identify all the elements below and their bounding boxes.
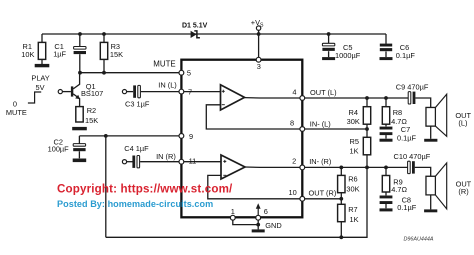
wire C2 line to pin 9 [79, 135, 179, 137]
resistor R7 [338, 204, 345, 221]
mute waveform annotation [28, 92, 41, 103]
wire op-amp U1B - feedback path [208, 175, 300, 198]
junction rail-R3 [102, 32, 106, 36]
pin 10 OUT(R) [300, 196, 305, 201]
wire C5 stem [328, 34, 330, 43]
junction mute-R3 [102, 71, 106, 75]
pin 7 IN(L) [179, 89, 184, 94]
wire C2-line drop to bottom rail [105, 136, 107, 237]
junction OUT(L)-R8 [384, 96, 388, 100]
svg-text:100µF: 100µF [48, 145, 70, 154]
wire R8 top stem [385, 98, 387, 107]
resistor R2 [76, 107, 83, 122]
wire Vs rail to pin 3 [258, 34, 260, 58]
resistor R4 [363, 107, 370, 125]
svg-text:9: 9 [189, 132, 193, 141]
svg-text:C4 1µF: C4 1µF [124, 144, 149, 153]
svg-text:R2: R2 [87, 106, 96, 115]
wire C8 to ground bar [385, 204, 387, 208]
wire R3 bottom stem [103, 59, 105, 72]
wire R8 to C7 [385, 124, 387, 126]
wire op-amp U1A output to pin 4 [244, 97, 300, 99]
wire op-amp U1B output to pin 2 [245, 166, 300, 168]
wire C6 corner stem [385, 34, 387, 44]
wire OUT(R) line pin10 to R6 [305, 198, 342, 200]
resistor R8 [382, 107, 389, 125]
svg-text:Posted By: homemade-circuits.c: Posted By: homemade-circuits.com [57, 199, 213, 209]
wire C1 top stem [79, 34, 81, 47]
capacitor C9 [408, 92, 415, 104]
svg-text:15K: 15K [110, 50, 123, 59]
pin 6 GND [256, 215, 261, 220]
svg-text:IN (R): IN (R) [156, 152, 176, 161]
wire pin6 to gnd node [257, 220, 259, 229]
svg-text:OUT (R): OUT (R) [309, 189, 337, 198]
svg-text:0.1µF: 0.1µF [397, 134, 417, 143]
svg-text:R5: R5 [350, 137, 359, 146]
svg-text:D96AU444A: D96AU444A [404, 236, 434, 242]
resistor R1 [38, 42, 45, 59]
wire R4 top stem [366, 98, 368, 107]
svg-text:10: 10 [289, 188, 297, 197]
wire C5 lower stem [328, 51, 330, 57]
wire R1 top stem [41, 34, 43, 42]
svg-text:R4: R4 [349, 108, 358, 117]
zener diode D1 [191, 31, 200, 38]
wire R7 bottom stem [340, 222, 342, 238]
svg-text:OUT (L): OUT (L) [310, 88, 337, 97]
junction OUT(L)-R4 [365, 96, 369, 100]
junction IN-(R)-R9 [384, 166, 388, 170]
junction rail-C5 [327, 32, 331, 36]
pin 3 Vs [256, 57, 261, 62]
wire R4-R5 link [366, 124, 368, 137]
capacitor C8 [380, 196, 393, 205]
wire C3 input stub [127, 91, 133, 93]
svg-text:30K: 30K [346, 184, 359, 193]
wire C2 bottom stem [78, 151, 80, 158]
junction bottom rail R7 [339, 235, 343, 239]
wire R5 bottom stem [366, 155, 368, 168]
wire C9 to speaker L [415, 98, 430, 108]
capacitor C1 [74, 47, 86, 55]
svg-text:MUTE: MUTE [6, 108, 27, 117]
wire C2 top stem [78, 136, 80, 144]
junction rail-Vs [257, 32, 261, 36]
capacitor C6 [380, 44, 392, 52]
wire +Vs stem [258, 30, 260, 34]
wire C1 bottom stem [79, 54, 81, 72]
ground bar under R2 [72, 127, 87, 130]
svg-text:C9 470µF: C9 470µF [396, 82, 429, 91]
op-amp U1B triangle [221, 155, 245, 179]
ground bar under C2 [73, 159, 87, 163]
+Vs terminal circle [256, 26, 260, 30]
svg-text:1K: 1K [350, 215, 359, 224]
C3 input terminal circle [122, 90, 126, 94]
junction rail-C1 [78, 32, 82, 36]
wire R6-R7 link [340, 193, 342, 205]
svg-text:GND: GND [265, 221, 281, 230]
svg-text:30K: 30K [347, 117, 360, 126]
transistor Q1 [63, 73, 80, 107]
wire R3 top stem [103, 34, 105, 42]
wire bottom rail [106, 167, 367, 237]
resistor R9 [382, 176, 389, 193]
capacitor C3 [133, 85, 140, 97]
wire op-amp U1A - feedback path [206, 105, 300, 129]
junction C2 line drop [104, 134, 108, 138]
svg-text:C10 470µF: C10 470µF [394, 152, 431, 161]
ground bar under C7 [380, 139, 393, 142]
svg-text:15K: 15K [85, 116, 98, 125]
ground bar under C6 [380, 57, 393, 60]
svg-text:BS107: BS107 [81, 89, 103, 98]
junction mute-C1-Q1 [78, 71, 82, 75]
ground bar under R1 [35, 64, 50, 67]
pin 5 MUTE [179, 70, 184, 75]
ground bar under C5 [322, 57, 335, 60]
junction gnd node under pin 6 [256, 223, 260, 227]
ground bar under C8 [380, 208, 393, 211]
pin 9 [179, 134, 184, 139]
svg-text:6: 6 [264, 207, 268, 216]
svg-text:5V: 5V [36, 83, 45, 92]
junction IN-(L)-R4-R5 [365, 127, 369, 131]
svg-text:R7: R7 [348, 205, 357, 214]
wire pin11 to op-amp U1B + [184, 161, 221, 163]
wire C7 to ground bar [385, 135, 387, 139]
svg-text:2: 2 [292, 157, 296, 166]
IC U1 TDA7266 box [181, 60, 302, 218]
svg-text:PLAY: PLAY [31, 74, 49, 83]
wire R9 to C8 [385, 192, 387, 195]
wire C4 input stub [127, 161, 133, 163]
wire top supply rail [42, 33, 386, 35]
pin 11 IN(R) [179, 159, 184, 164]
wire C3 to pin 7 [141, 91, 179, 93]
GND symbol at pin 6 [252, 203, 265, 232]
svg-text:R6: R6 [348, 175, 357, 184]
svg-text:5: 5 [187, 68, 191, 77]
svg-text:10K: 10K [21, 50, 34, 59]
wire R6 top stem [340, 167, 342, 175]
svg-text:1µF: 1µF [53, 50, 66, 59]
svg-text:7: 7 [188, 87, 192, 96]
wire C10 to speaker R [415, 167, 431, 176]
wire OUT(L) line pin4 to C9 [305, 97, 408, 99]
svg-text:0.1µF: 0.1µF [397, 203, 417, 212]
svg-text:MUTE: MUTE [153, 60, 175, 69]
junction IN-(R)-R6 [339, 166, 343, 170]
pin 1 [230, 215, 235, 220]
svg-text:3: 3 [257, 62, 261, 71]
wire pin7 to op-amp U1A + [184, 91, 221, 93]
svg-text:1: 1 [231, 207, 235, 216]
pin 2 IN-(R) [300, 165, 305, 170]
svg-text:0.1µF: 0.1µF [396, 51, 416, 60]
speaker OUT (R) symbol [424, 163, 447, 212]
capacitor C10 [408, 161, 415, 173]
pin 4 OUT(L) [300, 96, 305, 101]
svg-text:8: 8 [290, 119, 294, 128]
svg-text:IN- (L): IN- (L) [310, 119, 331, 128]
op-amp U1A triangle [221, 85, 245, 110]
capacitor C7 [380, 127, 393, 135]
svg-text:IN (L): IN (L) [158, 81, 176, 90]
svg-text:4.7Ω: 4.7Ω [391, 185, 407, 194]
pin 8 IN-(L) [300, 127, 305, 132]
svg-text:IN- (R): IN- (R) [309, 157, 331, 166]
wire IN-(R) line pin2 to C10 [305, 166, 408, 168]
resistor R6 [338, 175, 345, 192]
svg-text:(R): (R) [458, 187, 468, 196]
junction OUT(R)-R6-R7 [339, 197, 343, 201]
wire pin1 to gnd node [233, 220, 258, 224]
svg-text:1000µF: 1000µF [335, 51, 361, 60]
svg-text:4: 4 [292, 87, 296, 96]
svg-text:C3 1µF: C3 1µF [125, 99, 150, 108]
wire IN-(L) line pin8 to R4 [305, 128, 367, 130]
wire R9 top stem [385, 167, 387, 175]
resistor R3 [100, 42, 107, 59]
wire C6 lower stem [385, 52, 387, 58]
svg-text:Copyright: https://www.st.com/: Copyright: https://www.st.com/ [57, 183, 233, 196]
speaker OUT (L) symbol [424, 94, 446, 142]
junction IN-(R)-R5 [365, 166, 369, 170]
svg-text:(L): (L) [458, 119, 467, 128]
capacitor C4 [132, 156, 139, 168]
wire MUTE line [80, 72, 179, 74]
C4 input terminal circle [122, 160, 126, 164]
resistor R5 [363, 137, 370, 155]
wire R1 bottom stem [41, 59, 43, 64]
capacitor C2 [73, 144, 85, 152]
svg-text:1K: 1K [350, 147, 359, 156]
capacitor C5 [322, 43, 334, 51]
svg-text:D1 5.1V: D1 5.1V [182, 22, 208, 29]
svg-text:R8: R8 [393, 108, 402, 117]
svg-text:11: 11 [189, 157, 197, 166]
Q1 base terminal circle [58, 90, 62, 94]
wire C4 to pin 11 [140, 161, 179, 163]
